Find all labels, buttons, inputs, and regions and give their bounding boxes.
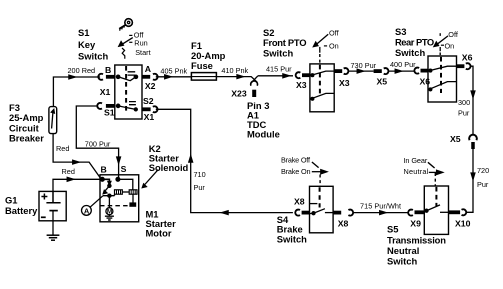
label S3 Rear PTO Switch bbox=[395, 26, 434, 58]
S2 right stub bbox=[334, 69, 342, 73]
svg-text:S1: S1 bbox=[78, 27, 89, 38]
svg-text:X1: X1 bbox=[144, 112, 155, 122]
wire 710 Pur (key S2 to brake switch) bbox=[156, 109, 293, 214]
svg-text:Off: Off bbox=[329, 28, 340, 37]
svg-text:X5: X5 bbox=[377, 77, 388, 87]
wire 400 Pur bbox=[388, 69, 415, 73]
connector X10 arc bbox=[462, 209, 467, 215]
svg-text:In Gear: In Gear bbox=[404, 156, 428, 165]
connector X2 arc at A bbox=[153, 74, 158, 80]
wire 700 Pur bbox=[76, 106, 120, 178]
S5 right stub bbox=[449, 210, 461, 214]
svg-text:Red: Red bbox=[62, 167, 75, 176]
S4 toggle (brake off dash) bbox=[312, 162, 319, 168]
svg-text:X3: X3 bbox=[339, 78, 350, 88]
svg-text:Brake On: Brake On bbox=[281, 167, 311, 176]
label F3 25-Amp Circuit Breaker bbox=[9, 102, 44, 144]
svg-text:Pur: Pur bbox=[477, 180, 489, 189]
wire 730 Pur bbox=[348, 69, 374, 73]
svg-text:Pur: Pur bbox=[194, 183, 206, 192]
svg-text:A: A bbox=[145, 64, 152, 74]
S5 toggle neutral arrow bbox=[429, 170, 443, 174]
wire Red breaker to starter B bbox=[53, 134, 101, 179]
node A circle bbox=[82, 206, 92, 216]
svg-text:On: On bbox=[445, 41, 455, 50]
svg-text:X9: X9 bbox=[410, 219, 421, 229]
wire 410 Pnk bbox=[216, 75, 257, 83]
node B (starter) bbox=[100, 177, 104, 181]
connector X1 arc at B bbox=[98, 74, 103, 80]
motor ground bbox=[105, 215, 114, 220]
svg-text:Switch: Switch bbox=[277, 234, 307, 245]
connector X3 arc right bbox=[344, 68, 349, 74]
K2 pointer arrow bbox=[142, 170, 158, 188]
wire 300 Pur (down right side) bbox=[470, 66, 475, 134]
S4 internal dashed link bbox=[319, 187, 321, 207]
svg-text:405 Pnk: 405 Pnk bbox=[160, 66, 187, 75]
S4 toggle brake-on arrow bbox=[312, 170, 327, 174]
svg-text:Run: Run bbox=[134, 38, 147, 47]
S1 bottom pole contacts bbox=[116, 102, 137, 111]
svg-text:B: B bbox=[101, 164, 107, 174]
svg-text:200 Red: 200 Red bbox=[68, 66, 96, 75]
svg-text:B: B bbox=[105, 65, 111, 75]
connector X6 arc left bbox=[414, 68, 419, 74]
svg-text:Key: Key bbox=[78, 39, 96, 50]
S5 internal dashed link bbox=[435, 187, 437, 206]
S2 bottom pole bbox=[310, 93, 334, 100]
svg-text:Switch: Switch bbox=[263, 48, 293, 59]
svg-text:S1: S1 bbox=[104, 107, 115, 117]
svg-text:S2: S2 bbox=[143, 96, 154, 106]
svg-text:Switch: Switch bbox=[395, 47, 425, 58]
connector X5 inline (stub and arc) bbox=[374, 68, 389, 74]
svg-text:Circuit: Circuit bbox=[9, 122, 39, 133]
S3 top pole bbox=[428, 66, 457, 72]
front PTO switch S2 box bbox=[310, 64, 334, 112]
svg-text:Switch: Switch bbox=[78, 51, 108, 62]
svg-text:X23: X23 bbox=[231, 89, 247, 99]
connector X8 arc left bbox=[295, 210, 300, 216]
connector X3 arc left bbox=[296, 72, 301, 78]
solenoid coil K2 (left) bbox=[115, 190, 123, 194]
label F1 20-Amp Fuse bbox=[191, 40, 226, 71]
S5 toggle (in-gear dash) bbox=[428, 162, 435, 168]
svg-text:Neutral: Neutral bbox=[387, 245, 419, 256]
connector X1 arc at S1 bbox=[97, 103, 102, 109]
S2 toggle lever bbox=[313, 34, 328, 53]
label S5 Transmission Neutral Switch bbox=[387, 224, 446, 267]
Off position dash bbox=[129, 34, 132, 36]
battery minus sign bbox=[41, 216, 46, 218]
svg-text:Pur: Pur bbox=[458, 109, 470, 118]
svg-text:X10: X10 bbox=[455, 219, 471, 229]
connector X6 arc right bbox=[466, 63, 471, 69]
connector X23 tap bbox=[251, 76, 258, 97]
label K2 Starter Solenoid bbox=[149, 143, 189, 173]
label S4 Brake Switch bbox=[277, 214, 307, 245]
svg-text:Red: Red bbox=[56, 144, 69, 153]
S1 internal mech dashed link bbox=[125, 66, 127, 112]
S3 toggle lever bbox=[434, 33, 448, 51]
svg-text:300: 300 bbox=[458, 98, 470, 107]
battery G1 bbox=[39, 191, 66, 220]
svg-text:Battery: Battery bbox=[5, 205, 38, 216]
wire 405 Pnk bbox=[156, 75, 192, 79]
S4 upper contact dash bbox=[310, 203, 318, 205]
label Pin 3 A1 TDC Module bbox=[247, 100, 280, 140]
fuse F1 bbox=[191, 73, 216, 81]
transmission neutral switch S5 box bbox=[424, 186, 448, 234]
svg-text:Brake Off: Brake Off bbox=[281, 155, 311, 164]
S4 toggle dashed link bbox=[319, 175, 321, 187]
label 710 Pur bbox=[194, 170, 206, 192]
starter motor M1 box bbox=[100, 175, 139, 222]
Run position dash bbox=[129, 41, 132, 43]
S3 internal dashed link bbox=[440, 57, 442, 93]
node S (starter) bbox=[116, 177, 120, 181]
connector X8 arc right bbox=[348, 210, 353, 216]
label G1 Battery bbox=[5, 195, 38, 217]
S4 left stub bbox=[302, 211, 310, 215]
terminal S2 stub bbox=[142, 107, 151, 111]
key symbol above S1 bbox=[119, 19, 132, 31]
wire Red battery to starter B bbox=[53, 177, 101, 191]
coil link wire bbox=[122, 191, 129, 193]
battery plus sign bbox=[41, 194, 47, 200]
svg-text:G1: G1 bbox=[5, 195, 18, 206]
svg-text:A: A bbox=[84, 206, 90, 215]
key selector arrow (points from Off) bbox=[119, 38, 133, 59]
S5 pole bbox=[424, 205, 448, 212]
solenoid contact feed bbox=[102, 179, 111, 187]
S3 toggle dashed link bbox=[439, 53, 441, 57]
svg-text:415 Pur: 415 Pur bbox=[266, 64, 292, 73]
S3 right stub bbox=[457, 64, 465, 68]
svg-text:On: On bbox=[329, 42, 339, 51]
svg-text:X2: X2 bbox=[145, 81, 156, 91]
solenoid moving contact blade bbox=[103, 186, 109, 194]
svg-text:730 Pur: 730 Pur bbox=[351, 61, 377, 70]
S terminal wire to coil bbox=[118, 179, 133, 190]
case/frame dashed line bbox=[100, 205, 139, 207]
svg-text:Start: Start bbox=[135, 48, 150, 57]
S2 left stub bbox=[302, 73, 310, 77]
label S1 Key Switch bbox=[78, 27, 108, 62]
svg-text:410 Pnk: 410 Pnk bbox=[221, 66, 248, 75]
wire from ammeter node A bbox=[90, 196, 103, 208]
terminal S1 stub bbox=[106, 104, 115, 108]
svg-text:S: S bbox=[121, 164, 127, 174]
wire 415 Pur bbox=[258, 74, 293, 78]
node to motor bbox=[103, 194, 115, 208]
S5 toggle dashed link bbox=[434, 173, 436, 186]
wire 720 Pur bbox=[466, 149, 475, 213]
svg-text:S5: S5 bbox=[387, 224, 398, 235]
svg-text:X8: X8 bbox=[338, 219, 349, 229]
label S2 Front PTO Switch bbox=[263, 27, 307, 59]
terminal B stub bbox=[106, 75, 115, 79]
S3 bottom pole bbox=[428, 82, 457, 91]
S4 right stub bbox=[333, 211, 341, 215]
motor M circle bbox=[106, 208, 113, 216]
svg-text:X1: X1 bbox=[100, 87, 111, 97]
brake switch S4 box bbox=[310, 186, 334, 233]
circuit breaker F3 bbox=[49, 107, 57, 134]
svg-text:715 Pur/Wht: 715 Pur/Wht bbox=[360, 202, 401, 211]
svg-text:Transmission: Transmission bbox=[387, 234, 446, 245]
S4 pole bbox=[310, 209, 334, 215]
svg-text:700 Pur: 700 Pur bbox=[85, 139, 111, 148]
solenoid coil K2 (right) bbox=[129, 190, 137, 194]
terminal A stub bbox=[142, 75, 150, 79]
svg-text:400 Pur: 400 Pur bbox=[390, 60, 416, 69]
svg-text:M: M bbox=[107, 209, 112, 216]
svg-text:Module: Module bbox=[247, 129, 280, 140]
svg-text:Switch: Switch bbox=[387, 255, 417, 266]
svg-text:Solenoid: Solenoid bbox=[149, 162, 189, 173]
connector X5 vertical (arc and stub) bbox=[469, 135, 477, 149]
coil to case link bbox=[130, 194, 136, 206]
label M1 Starter Motor bbox=[146, 208, 177, 238]
svg-text:Breaker: Breaker bbox=[9, 133, 44, 144]
connector X1 arc at S2 bbox=[153, 106, 158, 112]
S5 left stub bbox=[415, 210, 425, 214]
svg-text:S3: S3 bbox=[395, 26, 406, 37]
svg-text:X8: X8 bbox=[294, 197, 305, 207]
svg-text:710: 710 bbox=[194, 170, 206, 179]
rear PTO switch S3 box bbox=[428, 56, 457, 102]
wire 200 Red bbox=[53, 75, 100, 107]
S3 left stub bbox=[421, 69, 429, 73]
svg-text:Fuse: Fuse bbox=[191, 60, 213, 71]
S2 toggle dashed link bbox=[319, 54, 321, 64]
svg-text:Rear PTO: Rear PTO bbox=[395, 36, 434, 47]
battery ground bbox=[47, 221, 60, 240]
connector X9 arc bbox=[408, 210, 413, 216]
svg-text:Neutral: Neutral bbox=[404, 167, 429, 176]
svg-text:X6: X6 bbox=[462, 53, 473, 63]
S2 internal dashed link bbox=[319, 65, 321, 96]
S2 top pole bbox=[310, 71, 334, 77]
svg-text:X3: X3 bbox=[296, 80, 307, 90]
svg-text:Motor: Motor bbox=[146, 228, 172, 239]
svg-text:Front PTO: Front PTO bbox=[263, 37, 307, 48]
key switch S1 box bbox=[115, 65, 142, 119]
label 300 Pur bbox=[458, 98, 470, 118]
wire 715 Pur/Wht bbox=[353, 211, 409, 215]
svg-text:720: 720 bbox=[477, 166, 489, 175]
label 720 Pur bbox=[477, 166, 489, 189]
svg-text:X5: X5 bbox=[450, 134, 461, 144]
S1 top pole contacts bbox=[116, 72, 137, 81]
svg-text:Off: Off bbox=[448, 30, 459, 39]
